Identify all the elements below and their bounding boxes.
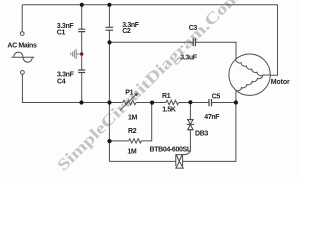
svg-text:3.3nF: 3.3nF: [57, 71, 75, 78]
svg-text:R1: R1: [162, 93, 171, 100]
svg-text:1M: 1M: [128, 114, 138, 121]
svg-text:3.3uF: 3.3uF: [180, 55, 198, 62]
svg-text:BTB04-600SL: BTB04-600SL: [150, 147, 192, 154]
svg-text:R2: R2: [128, 128, 137, 135]
svg-text:AC Mains: AC Mains: [7, 42, 37, 49]
svg-text:C5: C5: [212, 94, 221, 101]
svg-text:C3: C3: [189, 25, 198, 32]
svg-text:C2: C2: [122, 28, 131, 35]
svg-text:C4: C4: [57, 79, 66, 86]
svg-text:1M: 1M: [127, 149, 137, 156]
svg-text:Motor: Motor: [271, 79, 290, 86]
svg-text:C1: C1: [57, 30, 66, 37]
svg-text:DB3: DB3: [195, 131, 208, 138]
svg-text:47nF: 47nF: [204, 114, 220, 121]
svg-text:P1: P1: [125, 90, 133, 97]
svg-text:1.5K: 1.5K: [162, 107, 176, 114]
